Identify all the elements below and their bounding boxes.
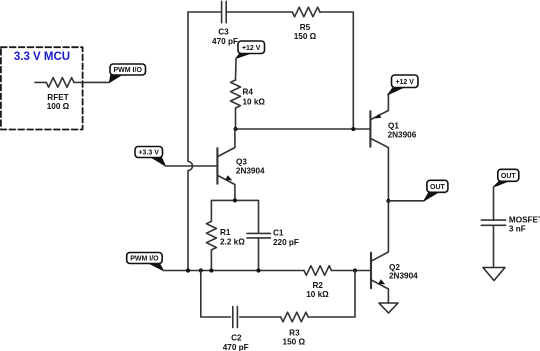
junction bottom rail / left vertical rail	[186, 268, 190, 272]
svg-text:470 pF: 470 pF	[223, 343, 249, 351]
MCU title 3.3 V MCU	[14, 51, 70, 63]
svg-text:2N3904: 2N3904	[236, 167, 265, 176]
svg-text:+3.3 V: +3.3 V	[138, 150, 159, 157]
wire: OUT stub	[388, 200, 424, 202]
svg-text:Q3: Q3	[236, 157, 247, 166]
svg-text:R2: R2	[312, 281, 323, 290]
capacitor C3 470 pF	[212, 1, 238, 46]
svg-text:OUT: OUT	[501, 173, 517, 180]
ground (MOSFET cap)	[483, 268, 505, 281]
ground (Q2 emitter)	[379, 303, 398, 313]
wire: left vertical rail with crossover hop	[188, 12, 193, 271]
+12 V flag (R4)	[236, 41, 265, 58]
+3.3 V flag	[135, 147, 165, 166]
transistor Q1 2N3906	[370, 95, 416, 201]
junction at R5 vertical / Q1 base rail	[351, 127, 355, 131]
svg-text:R5: R5	[300, 23, 311, 32]
svg-text:PWM I/O: PWM I/O	[114, 67, 143, 74]
svg-text:C3: C3	[218, 27, 229, 36]
svg-text:2N3904: 2N3904	[389, 271, 418, 280]
capacitor C1 220 pF	[247, 228, 299, 270]
svg-text:Q1: Q1	[388, 121, 399, 130]
svg-text:2N3906: 2N3906	[388, 131, 417, 140]
svg-text:MOSFET: MOSFET	[509, 215, 540, 224]
wire: +3.3V flag to Q3 base	[165, 165, 216, 167]
MCU dashed enclosure	[1, 47, 83, 129]
svg-text:OUT: OUT	[430, 184, 446, 191]
wire: R2 to Q2 base	[332, 270, 371, 272]
OUT flag (MOSFET gate model)	[494, 169, 519, 187]
+12 V flag (Q1 emitter)	[388, 75, 418, 95]
wire: bottom rail	[163, 270, 304, 272]
transistor Q3 2N3904	[217, 129, 265, 200]
svg-text:220 pF: 220 pF	[273, 238, 299, 247]
svg-text:RFET: RFET	[47, 93, 68, 102]
junction at R4 / Q3 collector	[233, 127, 237, 131]
capacitor C2 470 pF	[223, 307, 249, 351]
transistor Q2 2N3904	[371, 201, 418, 303]
wire: OUT flag to MOSFET cap	[493, 187, 495, 220]
wire: base rail from R4 junction to Q1 base	[236, 128, 370, 130]
junction bottom rail / C1	[256, 268, 260, 272]
PWM I/O flag (bottom rail)	[127, 253, 164, 271]
svg-text:150 Ω: 150 Ω	[283, 337, 306, 346]
resistor R5 150 Ω	[292, 7, 320, 41]
svg-text:R4: R4	[243, 88, 254, 97]
svg-text:2.2 kΩ: 2.2 kΩ	[220, 238, 245, 247]
wire: R3 return up to Q2 base wire	[308, 271, 355, 318]
wire: C2 branch from bottom rail	[201, 271, 231, 318]
svg-text:100 Ω: 100 Ω	[47, 102, 70, 111]
svg-text:3 nF: 3 nF	[509, 224, 526, 233]
svg-text:R3: R3	[289, 328, 300, 337]
OUT flag (collector node)	[424, 180, 448, 201]
wire: top rail left segment	[188, 11, 221, 13]
svg-text:+12 V: +12 V	[242, 45, 261, 52]
svg-text:R1: R1	[220, 228, 231, 237]
svg-text:C1: C1	[273, 228, 284, 237]
capacitor MOSFET 3 nF	[481, 215, 540, 233]
svg-text:470 pF: 470 pF	[212, 37, 238, 46]
wire: MOSFET cap to ground	[493, 225, 495, 267]
resistor R2 10 kΩ	[304, 266, 332, 299]
wire: C2 to R3	[240, 316, 281, 318]
wire: +12V flag to R4	[235, 58, 238, 80]
wire: R1/C1 top rail	[211, 200, 258, 233]
svg-text:150 Ω: 150 Ω	[294, 32, 317, 41]
svg-text:10 kΩ: 10 kΩ	[243, 97, 266, 106]
junction bottom rail / C2 branch	[199, 268, 203, 272]
junction Q1/Q2 collectors / OUT	[386, 199, 390, 203]
svg-text:3.3 V MCU: 3.3 V MCU	[14, 51, 70, 63]
junction R3 return / Q2 base wire	[353, 268, 357, 272]
resistor R4 10 kΩ	[231, 80, 266, 108]
wire: top rail right segment down to Q1 base rail	[320, 12, 354, 129]
wire: R4 to junction	[235, 108, 237, 129]
svg-text:+12 V: +12 V	[395, 79, 414, 86]
junction at Q3 emitter / R1C1 top rail	[233, 198, 237, 202]
svg-text:10 kΩ: 10 kΩ	[306, 290, 329, 299]
PWM I/O flag (MCU output)	[109, 64, 145, 82]
resistor RFET 100 Ω	[35, 78, 109, 111]
wire: top rail middle segment	[227, 11, 292, 13]
junction bottom rail / R1	[209, 268, 213, 272]
svg-text:PWM I/O: PWM I/O	[130, 256, 159, 263]
resistor R1 2.2 kΩ	[206, 221, 245, 270]
svg-text:C2: C2	[231, 334, 242, 343]
resistor R3 150 Ω	[281, 312, 309, 346]
